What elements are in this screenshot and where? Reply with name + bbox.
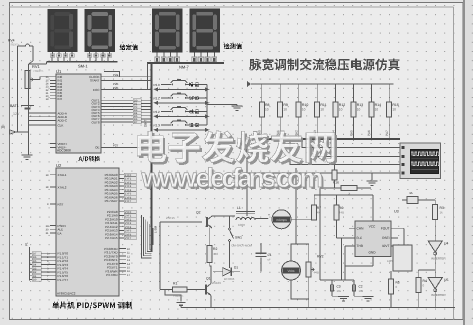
capacitor C2 — [353, 280, 355, 285]
svg-text:R5: R5 — [396, 281, 400, 285]
svg-text:D2: D2 — [33, 271, 37, 274]
oscilloscope body — [400, 143, 441, 178]
svg-text:VCC: VCC — [369, 225, 376, 229]
top bus of resistor ladder — [251, 83, 394, 85]
svg-text:INVERTER: INVERTER — [431, 293, 446, 297]
svg-text:BAT1: BAT1 — [10, 104, 19, 108]
wires left rail to U1 address pins — [29, 112, 51, 114]
resistor R16 — [334, 139, 336, 170]
svg-text:D0: D0 — [33, 279, 37, 282]
svg-text:10u: 10u — [337, 289, 342, 293]
svg-text:10: 10 — [320, 108, 324, 112]
svg-text:1YF3: 1YF3 — [125, 185, 132, 188]
oscilloscope screen — [410, 149, 438, 173]
scope waveform noise 1 — [411, 158, 438, 160]
resistor R17 horizontal — [341, 186, 357, 191]
svg-text:1YF2: 1YF2 — [125, 181, 132, 184]
svg-text:R16: R16 — [333, 181, 339, 185]
voltmeter — [282, 261, 301, 280]
svg-text:2YF2: 2YF2 — [125, 218, 132, 221]
svg-text:U1: U1 — [56, 69, 62, 74]
ammeter — [272, 210, 291, 229]
window right edge — [464, 0, 473, 325]
svg-text:100H: 100H — [238, 223, 245, 227]
svg-text:EA: EA — [58, 231, 62, 235]
svg-text:RSFI: RSFI — [382, 236, 389, 240]
svg-text:ADD-C: ADD-C — [58, 119, 68, 123]
bottom bus of resistor ladder — [258, 138, 400, 140]
resistor R12 — [335, 84, 337, 102]
svg-text:U2: U2 — [56, 163, 62, 168]
wire top rail 555 — [314, 194, 373, 196]
svg-text:D7: D7 — [134, 121, 138, 124]
svg-text:PA2: PA2 — [295, 130, 299, 136]
resistor R10 — [298, 84, 300, 102]
wire R16 bottom rail — [320, 187, 365, 189]
bus under DS1/DS2 — [47, 61, 118, 63]
svg-text:L-SM: L-SM — [154, 225, 158, 233]
arrow wire row 1 — [157, 88, 206, 90]
svg-text:OE: OE — [95, 146, 99, 150]
svg-text:P2b: P2b — [113, 86, 119, 90]
svg-text:2SF15: 2SF15 — [166, 216, 175, 220]
battery symbol bottom — [177, 302, 186, 304]
svg-text:2YF5: 2YF5 — [125, 230, 132, 233]
svg-text:CHN: CHN — [357, 227, 365, 231]
svg-text:D6: D6 — [33, 256, 37, 259]
wire scope row D down to L1 — [246, 176, 248, 216]
svg-text:D1: D1 — [33, 275, 37, 278]
svg-text:START: START — [90, 79, 100, 83]
svg-text:10: 10 — [265, 108, 269, 112]
7-segment display DS4 — [189, 9, 220, 53]
svg-text:PA7: PA7 — [385, 130, 389, 136]
ground near scope — [371, 173, 373, 180]
svg-text:R11: R11 — [320, 103, 326, 107]
Q1 emitter to bottom wire — [210, 296, 212, 308]
svg-text:Volts: Volts — [288, 269, 295, 273]
wire cap top rail — [320, 279, 354, 281]
U1 left pin stubs — [50, 76, 56, 78]
wire THR/R-C loop — [342, 238, 346, 280]
svg-text:BTC096: BTC096 — [224, 277, 235, 281]
svg-text:44B: 44B — [339, 211, 344, 215]
svg-text:R8: R8 — [265, 103, 270, 107]
svg-text:P2.0: P2.0 — [154, 83, 161, 87]
scope waveform noise 2 — [411, 169, 438, 171]
svg-text:INVERTER: INVERTER — [431, 257, 446, 261]
resistor R2 — [209, 228, 211, 246]
capacitor C3 — [331, 280, 333, 285]
svg-text:2YF4: 2YF4 — [125, 226, 132, 229]
arrow wire row 4 — [157, 129, 206, 131]
svg-text:R10: R10 — [302, 103, 308, 107]
svg-text:2N169: 2N169 — [212, 281, 221, 285]
svg-text:FOUT: FOUT — [381, 227, 390, 231]
svg-text:U4: U4 — [444, 242, 448, 246]
potentiometer RV1 — [25, 71, 30, 89]
chip U2 AT89C51 — [56, 168, 119, 296]
resistor R9 — [279, 84, 281, 102]
title text 脉宽调制交流稳压电源仿真 — [249, 58, 400, 70]
svg-text:2YF3: 2YF3 — [125, 222, 132, 225]
svg-text:mAmps: mAmps — [276, 218, 287, 222]
ladder net labels left of U2 — [29, 247, 31, 281]
svg-text:1YF1: 1YF1 — [125, 178, 132, 181]
svg-text:R13: R13 — [357, 103, 363, 107]
input tag arrow — [10, 130, 17, 134]
svg-text:1YF7: 1YF7 — [125, 200, 132, 203]
U1 OE wire — [101, 146, 152, 148]
inverter U5 — [428, 278, 442, 289]
svg-text:10: 10 — [283, 108, 287, 112]
svg-text:P1.7/T7: P1.7/T7 — [58, 278, 69, 282]
svg-text:NM-7: NM-7 — [179, 65, 190, 70]
svg-text:P2.2: P2.2 — [154, 110, 161, 114]
resistor R11 — [316, 84, 318, 102]
svg-text:R3: R3 — [440, 206, 444, 210]
resistor R4 — [417, 270, 419, 278]
U1 right pin stubs and wires — [101, 76, 152, 78]
7-segment display DS2 — [85, 9, 115, 52]
svg-text:10: 10 — [375, 108, 379, 112]
button label 4 — [189, 123, 199, 127]
svg-text:2YF7: 2YF7 — [125, 237, 132, 240]
wire staircase rail to Q2 base — [160, 221, 202, 223]
svg-text:1YF4: 1YF4 — [125, 189, 132, 192]
svg-text:2YF6: 2YF6 — [125, 233, 132, 236]
wire Q2 to L1 — [218, 215, 235, 217]
svg-text:XTAL2: XTAL2 — [58, 185, 67, 189]
svg-text:U3: U3 — [394, 210, 399, 214]
capacitor C1 — [260, 243, 262, 252]
long bottom wire — [181, 307, 455, 309]
wires from bus to oscilloscope — [302, 139, 400, 148]
svg-text:D7: D7 — [33, 253, 37, 256]
wire U5 to bottom — [434, 291, 436, 307]
junction dots at pot — [27, 73, 30, 76]
resistor R3 — [434, 200, 436, 204]
svg-text:4A: 4A — [409, 191, 413, 195]
svg-text:C2: C2 — [359, 285, 363, 289]
load box — [393, 245, 412, 271]
data bus vertical — [151, 63, 153, 252]
svg-text:P0.7/AD7: P0.7/AD7 — [105, 199, 118, 203]
label given-value 给定值 — [120, 44, 138, 50]
ground C2 — [363, 296, 374, 298]
svg-text:P1: P1 — [25, 242, 29, 246]
svg-text:C3: C3 — [337, 285, 341, 289]
U3 pin wires — [349, 227, 355, 229]
svg-text:1YF0: 1YF0 — [125, 174, 132, 177]
wire left rail — [28, 64, 30, 155]
svg-text:R-C: R-C — [357, 236, 363, 240]
svg-text:R14: R14 — [375, 103, 381, 107]
svg-text:D4: D4 — [33, 264, 37, 267]
ground for buttons — [232, 105, 243, 107]
staircase bus fanout — [142, 215, 152, 258]
wire rail to ground — [207, 104, 237, 106]
svg-text:RST: RST — [58, 202, 64, 206]
svg-text:IN7: IN7 — [58, 97, 63, 101]
diode D1 — [213, 271, 223, 273]
button label 1 — [189, 83, 199, 87]
U2 left pins — [50, 174, 56, 176]
wire R1 left down to battery — [165, 290, 181, 302]
arrow wire row 2 — [157, 102, 206, 104]
svg-text:IOVT: IOVT — [382, 244, 389, 248]
svg-text:1k: 1k — [440, 211, 444, 215]
bus under DS3/DS4 — [147, 62, 224, 64]
svg-text:+: + — [268, 213, 270, 217]
svg-text:P2.1: P2.1 — [154, 96, 161, 100]
button label 2 — [189, 96, 199, 100]
scope waveform 2 — [411, 162, 440, 165]
arrow wire row 3 — [157, 115, 206, 117]
svg-text:1YF5: 1YF5 — [125, 193, 132, 196]
svg-text:<TEXT>: <TEXT> — [33, 69, 44, 73]
watermark 电子发烧友网 — [137, 131, 337, 165]
resistor R14 — [370, 84, 372, 102]
svg-text:10: 10 — [357, 108, 361, 112]
wire bus2 left end down — [147, 63, 149, 89]
svg-text:SW1: SW1 — [235, 236, 242, 240]
7-segment display DS3 — [152, 9, 183, 53]
svg-text:2YF0: 2YF0 — [125, 211, 132, 214]
svg-text:10: 10 — [339, 108, 343, 112]
svg-text:EOC: EOC — [93, 88, 100, 92]
svg-text:440: 440 — [213, 252, 218, 256]
svg-text:DB-7: DB-7 — [144, 120, 148, 127]
svg-text:P2a: P2a — [113, 73, 119, 77]
label measured-value 检测值 — [224, 43, 242, 49]
svg-text:R12: R12 — [339, 103, 345, 107]
svg-text:P27: P27 — [113, 144, 119, 148]
svg-text:10: 10 — [302, 108, 306, 112]
svg-text:10u: 10u — [359, 289, 364, 293]
svg-text:Q2: Q2 — [196, 211, 201, 215]
wire RV1 wiper to U1 IN0 — [34, 79, 41, 81]
svg-text:R9: R9 — [283, 103, 288, 107]
wire L1 to ammeter — [255, 218, 268, 220]
svg-text:D5: D5 — [33, 260, 37, 263]
chip U1 ADC0808 — [56, 74, 101, 153]
svg-text:www.elecfans.com: www.elecfans.com — [141, 163, 324, 193]
inverter U4 — [428, 241, 442, 252]
Q1 collector up to D1 junction — [210, 272, 212, 284]
svg-text:(0): (0) — [1, 125, 5, 129]
svg-text:R15: R15 — [392, 103, 398, 107]
button label 3 — [189, 109, 199, 113]
svg-text:L1: L1 — [237, 206, 241, 210]
wire U4 to U5 — [434, 255, 436, 278]
wire SW1 down to D1 — [229, 242, 231, 269]
svg-text:PA1: PA1 — [276, 130, 280, 136]
resistor R15 — [388, 84, 390, 102]
svg-text:P3.7/RD: P3.7/RD — [106, 273, 118, 277]
ground for left rail — [22, 154, 33, 156]
button right rail — [206, 85, 208, 126]
svg-text:Q1: Q1 — [206, 277, 211, 281]
svg-text:12V: 12V — [13, 112, 20, 116]
svg-text:SM-1: SM-1 — [78, 64, 88, 69]
svg-text:PA5: PA5 — [349, 130, 353, 136]
battery BAT1 — [21, 105, 34, 107]
svg-text:R1: R1 — [173, 282, 177, 286]
svg-text:R2: R2 — [213, 247, 217, 251]
svg-text:U5: U5 — [444, 278, 448, 282]
svg-text:THR: THR — [357, 244, 364, 248]
svg-text:D1: D1 — [234, 266, 238, 270]
svg-text:CLK: CLK — [58, 123, 64, 127]
resistor R13 — [353, 84, 355, 102]
svg-text:R4: R4 — [423, 279, 427, 283]
switch SW1 — [229, 216, 231, 228]
svg-text:2YF1: 2YF1 — [125, 215, 132, 218]
watermark www.elecfans.com — [141, 163, 326, 195]
svg-text:VREF-: VREF- — [58, 146, 67, 150]
wire U3 gnd down — [372, 257, 374, 267]
inner border line right — [453, 7, 455, 320]
svg-text:C1: C1 — [268, 253, 272, 257]
svg-text:1YF6: 1YF6 — [125, 196, 132, 199]
inner border line top — [10, 6, 454, 8]
svg-text:PA6: PA6 — [367, 130, 371, 136]
svg-text:44B: 44B — [314, 271, 319, 275]
scope waveform 1 — [411, 152, 440, 155]
svg-text:R7: R7 — [317, 206, 321, 210]
svg-text:D3: D3 — [33, 267, 37, 270]
svg-text:RV2: RV2 — [317, 255, 324, 259]
svg-text:R6: R6 — [339, 206, 343, 210]
svg-text:OUT8: OUT8 — [91, 120, 99, 124]
7-segment display DS1 — [48, 9, 78, 52]
svg-text:XTAL1: XTAL1 — [58, 173, 67, 177]
svg-text:P2.7/A15: P2.7/A15 — [105, 236, 118, 240]
wire loop voltmeter — [295, 168, 297, 244]
svg-text:10: 10 — [392, 108, 396, 112]
svg-text:UM-SPDT-MOM: UM-SPDT-MOM — [232, 244, 253, 248]
svg-text:AT89C51RC2: AT89C51RC2 — [57, 292, 76, 296]
svg-text:GND: GND — [368, 251, 376, 255]
svg-text:uF: uF — [268, 258, 272, 262]
svg-text:P2.3: P2.3 — [154, 123, 161, 127]
label A/D 转换 — [79, 156, 101, 162]
ground C3 — [338, 296, 349, 298]
wire ammeter right — [291, 218, 314, 220]
wire from tag down to input arrow — [17, 46, 19, 132]
label 单片机 PID/SPWM 调制 — [52, 302, 132, 310]
resistor R8 — [261, 84, 263, 102]
